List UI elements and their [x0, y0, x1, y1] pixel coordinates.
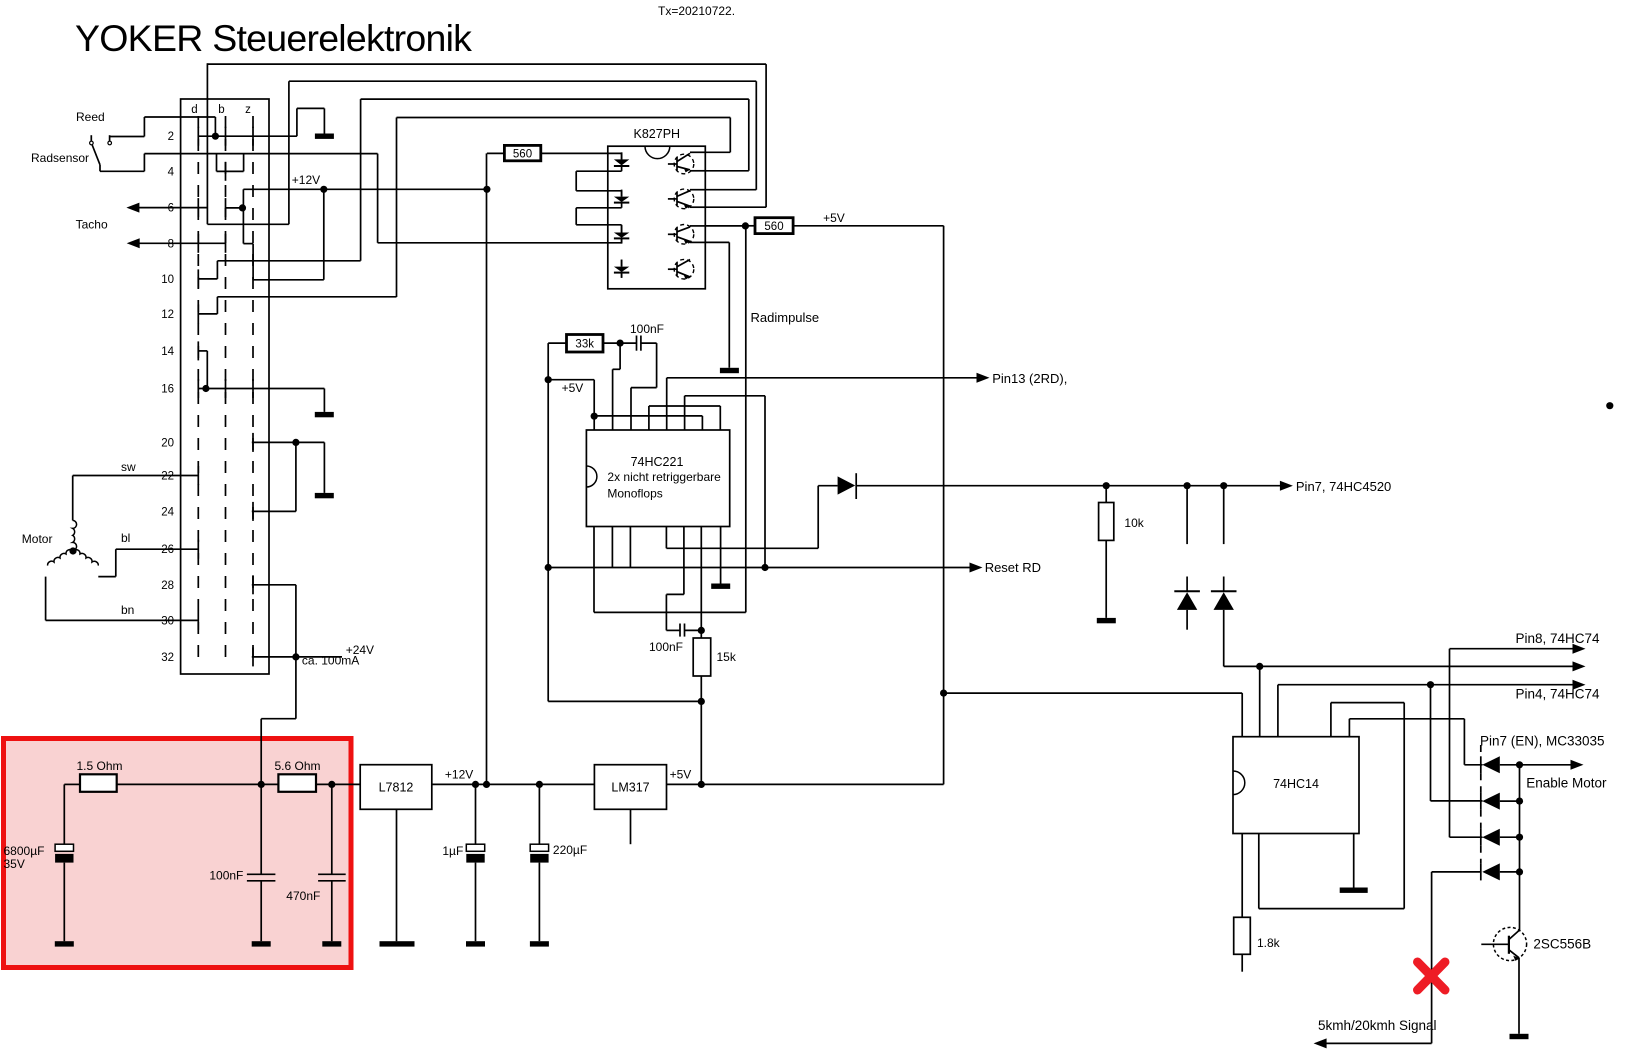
svg-text:5kmh/20kmh Signal: 5kmh/20kmh Signal [1318, 1018, 1437, 1033]
svg-text:2SC556B: 2SC556B [1533, 937, 1591, 952]
svg-text:22: 22 [161, 471, 174, 483]
svg-text:Radimpulse: Radimpulse [751, 310, 820, 325]
svg-text:sw: sw [121, 460, 136, 474]
svg-text:560: 560 [513, 149, 532, 161]
svg-text:Reed: Reed [76, 110, 105, 124]
svg-text:1.8k: 1.8k [1257, 936, 1281, 950]
svg-text:14: 14 [161, 346, 174, 358]
svg-text:+5V: +5V [823, 211, 845, 225]
svg-text:74HC14: 74HC14 [1273, 777, 1319, 791]
svg-text:6: 6 [168, 203, 174, 215]
svg-text:bn: bn [121, 603, 134, 617]
svg-text:28: 28 [161, 580, 174, 592]
svg-text:Monoflops: Monoflops [607, 487, 662, 501]
svg-text:560: 560 [764, 221, 783, 233]
svg-text:Enable Motor: Enable Motor [1526, 776, 1607, 791]
svg-text:Pin8, 74HC74: Pin8, 74HC74 [1516, 631, 1601, 646]
svg-text:ca. 100mA: ca. 100mA [302, 654, 359, 668]
svg-text:20: 20 [161, 437, 174, 449]
svg-text:470nF: 470nF [286, 889, 320, 903]
svg-text:Radsensor: Radsensor [31, 151, 89, 165]
svg-text:YOKER Steuerelektronik: YOKER Steuerelektronik [75, 17, 472, 59]
svg-text:+12V: +12V [445, 768, 473, 782]
svg-text:100nF: 100nF [630, 322, 664, 336]
svg-text:Pin7, 74HC4520: Pin7, 74HC4520 [1296, 479, 1391, 494]
svg-text:d: d [191, 104, 197, 116]
svg-text:220µF: 220µF [553, 843, 587, 857]
svg-text:12: 12 [161, 309, 174, 321]
svg-text:4: 4 [168, 166, 175, 178]
svg-text:2x nicht retriggerbare: 2x nicht retriggerbare [607, 470, 721, 484]
svg-text:100nF: 100nF [649, 640, 683, 654]
svg-text:Pin13 (2RD),: Pin13 (2RD), [992, 371, 1067, 386]
svg-text:L7812: L7812 [379, 781, 414, 795]
svg-text:35V: 35V [4, 857, 25, 871]
svg-text:32: 32 [161, 652, 174, 664]
svg-text:Pin4, 74HC74: Pin4, 74HC74 [1516, 687, 1601, 702]
svg-text:6800µF: 6800µF [4, 844, 45, 858]
svg-text:16: 16 [161, 384, 174, 396]
svg-text:Pin7 (EN), MC33035: Pin7 (EN), MC33035 [1480, 734, 1605, 749]
svg-text:1.5 Ohm: 1.5 Ohm [77, 759, 123, 773]
svg-text:10: 10 [161, 274, 174, 286]
svg-text:33k: 33k [575, 339, 594, 351]
svg-text:z: z [245, 104, 251, 116]
svg-text:10k: 10k [1124, 516, 1144, 530]
svg-text:30: 30 [161, 615, 174, 627]
svg-text:24: 24 [161, 506, 174, 518]
svg-text:26: 26 [161, 544, 174, 556]
svg-text:74HC221: 74HC221 [631, 455, 684, 469]
svg-text:Reset RD: Reset RD [985, 560, 1041, 575]
svg-text:LM317: LM317 [611, 781, 649, 795]
svg-text:b: b [218, 104, 224, 116]
svg-text:5.6 Ohm: 5.6 Ohm [275, 759, 321, 773]
svg-text:+12V: +12V [292, 173, 320, 187]
svg-text:Tacho: Tacho [76, 218, 108, 232]
svg-text:15k: 15k [717, 650, 737, 664]
svg-text:K827PH: K827PH [634, 127, 681, 141]
svg-text:100nF: 100nF [209, 869, 243, 883]
svg-text:1µF: 1µF [442, 844, 463, 858]
svg-text:2: 2 [168, 131, 174, 143]
svg-text:Tx=20210722.: Tx=20210722. [658, 4, 735, 18]
svg-text:+5V: +5V [670, 768, 692, 782]
svg-text:bl: bl [121, 531, 130, 545]
svg-text:Motor: Motor [22, 532, 53, 546]
svg-text:+5V: +5V [562, 381, 584, 395]
svg-text:8: 8 [168, 238, 174, 250]
